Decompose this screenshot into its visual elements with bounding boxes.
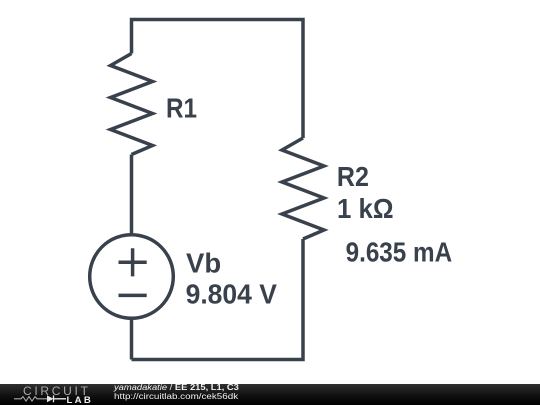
svg-text:LAB: LAB — [67, 395, 91, 405]
minus sign inside Vb — [119, 294, 147, 298]
logo wire squiggle with resistor — [14, 397, 47, 401]
svg-text:R2: R2 — [337, 161, 369, 192]
footer author line — [114, 384, 239, 392]
plus sign inside Vb — [119, 248, 147, 276]
wire bottom from Vb to R2 — [132, 239, 304, 360]
wire R1 to Vb — [130, 155, 134, 237]
wire Vb to bottom — [130, 317, 134, 360]
wire top from R1 to R2 — [132, 20, 304, 139]
svg-text:1 kΩ: 1 kΩ — [337, 193, 394, 224]
CircuitLab logo — [0, 384, 110, 405]
svg-text:9.635 mA: 9.635 mA — [346, 236, 453, 267]
footer bar — [0, 384, 540, 405]
svg-text:9.804 V: 9.804 V — [186, 279, 278, 310]
resistor R2 — [282, 138, 324, 239]
footer url line — [114, 393, 238, 401]
svg-text:Vb: Vb — [186, 247, 221, 278]
logo diode — [47, 395, 54, 402]
voltage source Vb circle — [90, 235, 174, 319]
resistor R1 — [111, 54, 153, 155]
svg-text:R1: R1 — [166, 93, 197, 124]
